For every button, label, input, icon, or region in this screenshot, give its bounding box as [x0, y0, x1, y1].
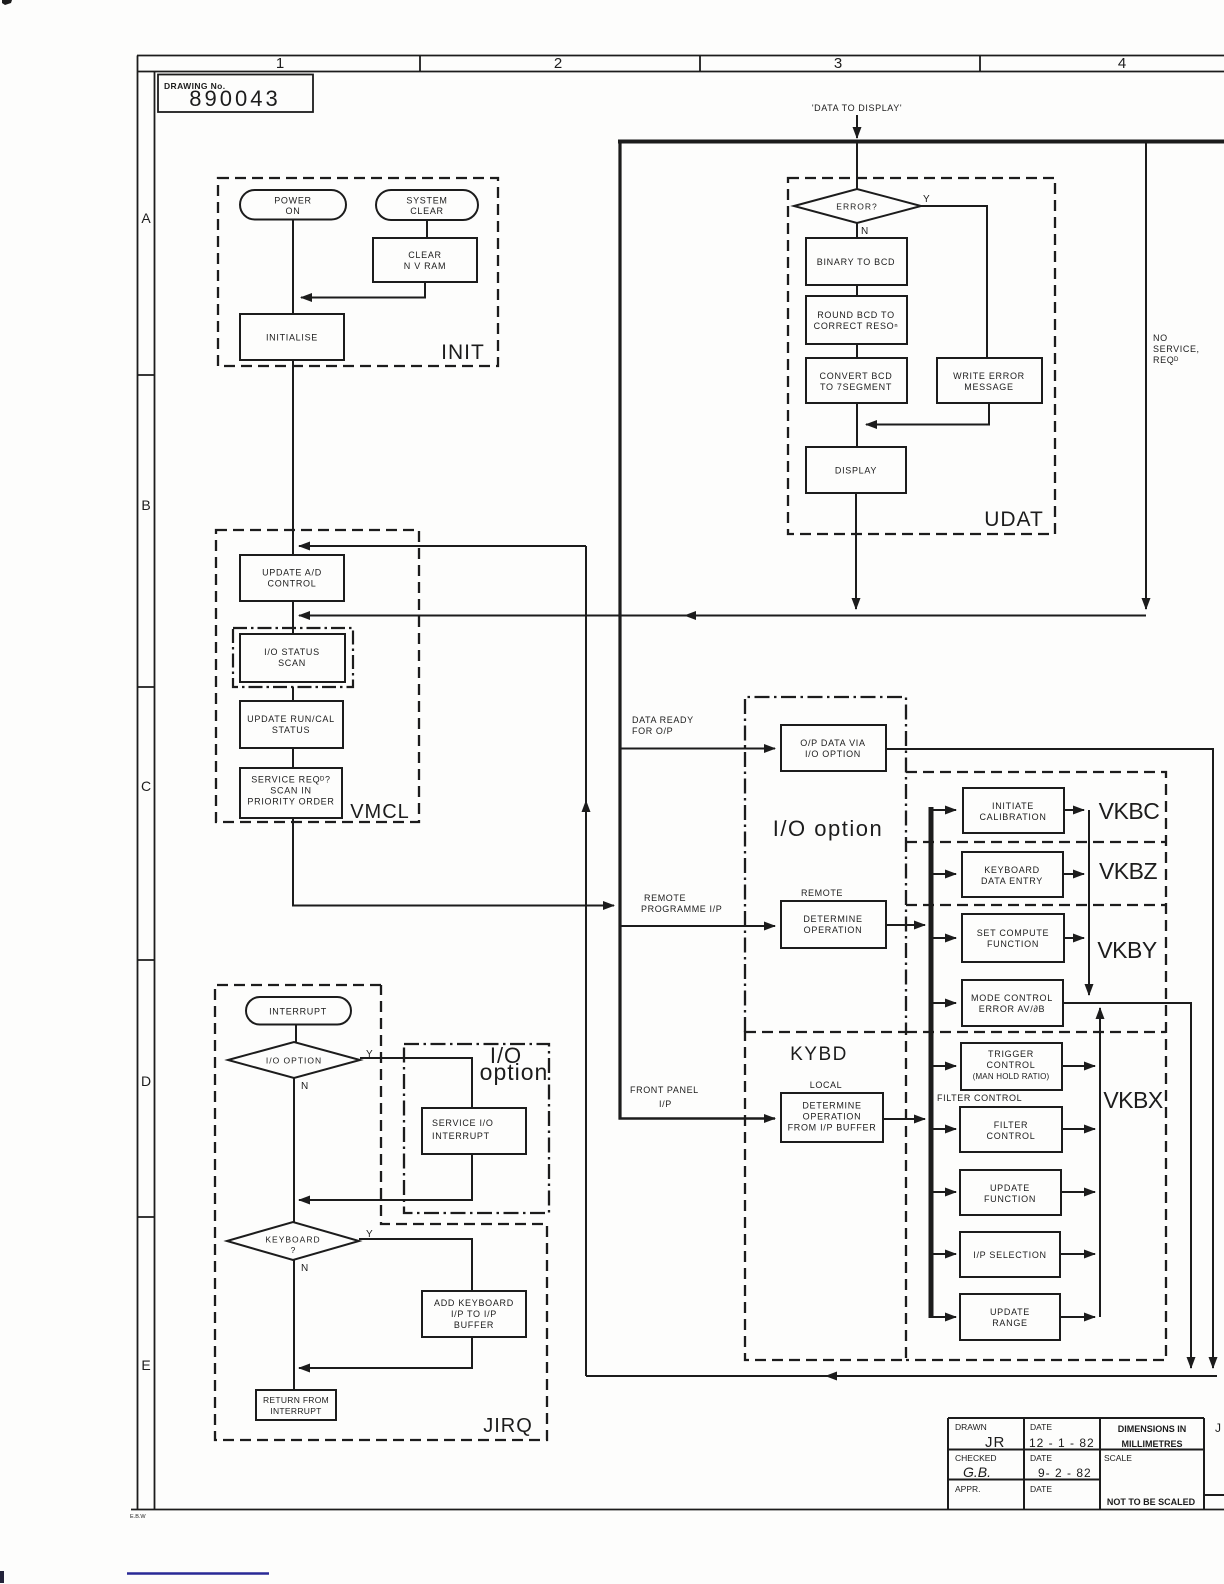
svg-text:E: E — [141, 1357, 150, 1373]
process INITIALISE — [240, 314, 344, 360]
svg-text:DATE: DATE — [1030, 1453, 1052, 1463]
wire keyboard N down — [293, 1260, 295, 1390]
VKB outer dashed boundary — [906, 772, 1166, 1360]
wire right branch down — [1145, 143, 1147, 609]
svg-text:INTERRUPT: INTERRUPT — [270, 1406, 321, 1416]
svg-text:N V RAM: N V RAM — [404, 261, 446, 271]
svg-text:TRIGGER: TRIGGER — [988, 1049, 1034, 1059]
svg-text:VMCL: VMCL — [350, 801, 410, 823]
svg-text:VKBY: VKBY — [1097, 937, 1157, 963]
svg-text:SET COMPUTE: SET COMPUTE — [977, 928, 1050, 938]
svg-text:SCALE: SCALE — [1104, 1453, 1132, 1463]
svg-text:A: A — [141, 210, 151, 226]
svg-text:FROM I/P BUFFER: FROM I/P BUFFER — [788, 1123, 877, 1133]
wire bus branch r2 — [933, 873, 956, 875]
wire O/P data out, right and down — [886, 749, 1213, 1368]
wire VMCL out to bus — [293, 818, 614, 906]
svg-text:CONTROL: CONTROL — [987, 1060, 1036, 1070]
svg-text:OPERATION: OPERATION — [803, 1112, 862, 1122]
svg-text:KEYBOARD: KEYBOARD — [984, 865, 1040, 875]
wire mode control out right and down — [1063, 1003, 1191, 1368]
svg-text:CONTROL: CONTROL — [987, 1131, 1036, 1141]
wire bus branch r1 — [933, 809, 956, 811]
process UPDATE RANGE — [960, 1294, 1060, 1340]
wire system clear to clear nv ram — [426, 220, 428, 238]
wire filter out — [1062, 1128, 1095, 1130]
svg-text:'DATA TO DISPLAY': 'DATA TO DISPLAY' — [812, 103, 902, 113]
process ADD KEYBOARD I/P TO I/P BUFFER — [422, 1291, 526, 1337]
process MODE CONTROL ERROR — [962, 980, 1063, 1026]
decision I/O OPTION — [228, 1042, 373, 1092]
svg-text:E.B.W: E.B.W — [130, 1514, 146, 1520]
svg-text:J: J — [1215, 1421, 1221, 1435]
corner mark bottom-left — [0, 1571, 4, 1583]
wire i/o option Y to service box — [360, 1058, 472, 1108]
svg-text:ADD KEYBOARD: ADD KEYBOARD — [434, 1298, 514, 1308]
terminal SYSTEM CLEAR — [376, 190, 478, 220]
svg-text:WRITE ERROR: WRITE ERROR — [953, 371, 1025, 381]
svg-text:?: ? — [291, 1245, 296, 1255]
decision ERROR? — [794, 189, 930, 237]
terminal INTERRUPT — [246, 997, 351, 1025]
svg-text:G.B.: G.B. — [963, 1464, 991, 1480]
process SET COMPUTE FUNCTION — [962, 914, 1064, 962]
wire VKBX collector up — [1099, 1008, 1101, 1317]
wire local determine to bus — [883, 1118, 925, 1120]
wire update range out — [1060, 1316, 1095, 1318]
wire long return to VMCL — [299, 615, 1146, 617]
VMCL dashed boundary — [216, 530, 419, 822]
wire convert down to display — [856, 403, 858, 447]
svg-text:VKBX: VKBX — [1103, 1087, 1163, 1113]
wire bus branch r8 — [933, 1253, 956, 1255]
wire bus branch r5 — [933, 1065, 956, 1067]
process RETURN FROM INTERRUPT — [256, 1390, 336, 1420]
svg-text:CONTROL: CONTROL — [268, 579, 317, 589]
junction arrow on bottom collector — [825, 1372, 837, 1381]
wire update function out — [1061, 1191, 1095, 1193]
wire add keyboard return — [299, 1337, 472, 1368]
divider VKBZ/VKBY — [906, 904, 1166, 906]
svg-text:VKBC: VKBC — [1099, 798, 1160, 824]
svg-text:4: 4 — [1118, 55, 1126, 72]
svg-text:(MAN HOLD RATIO): (MAN HOLD RATIO) — [973, 1072, 1050, 1081]
svg-text:I/O STATUS: I/O STATUS — [264, 647, 320, 657]
svg-text:FUNCTION: FUNCTION — [984, 1194, 1036, 1204]
svg-text:N: N — [301, 1081, 308, 1092]
svg-text:N: N — [861, 226, 868, 237]
svg-text:ERROR AV/∂B: ERROR AV/∂B — [979, 1004, 1046, 1014]
process WRITE ERROR MESSAGE — [937, 358, 1042, 403]
wire service i/o return — [299, 1154, 472, 1200]
svg-text:SERVICE I/O: SERVICE I/O — [432, 1118, 494, 1128]
svg-text:INTERRUPT: INTERRUPT — [269, 1007, 327, 1017]
wire bus branch r7 — [933, 1191, 956, 1193]
svg-text:C: C — [141, 778, 151, 794]
svg-text:PROGRAMME I/P: PROGRAMME I/P — [641, 904, 722, 914]
svg-text:NOT TO BE SCALED: NOT TO BE SCALED — [1107, 1497, 1196, 1507]
corner mark top-left — [2, 0, 12, 5]
svg-text:Y: Y — [923, 194, 930, 205]
svg-text:DATA ENTRY: DATA ENTRY — [981, 876, 1043, 886]
process UPDATE FUNCTION — [960, 1170, 1061, 1215]
wire i/p selection out — [1060, 1253, 1095, 1255]
svg-text:SYSTEM: SYSTEM — [406, 196, 447, 206]
process DETERMINE OPERATION FROM I/P BUFFER — [781, 1093, 883, 1142]
wire keyboard Y to add keyboard box — [359, 1239, 472, 1291]
svg-text:CLEAR: CLEAR — [410, 206, 444, 216]
node NO SERVICE REQD — [1153, 333, 1200, 365]
wire — [856, 285, 858, 296]
svg-text:option: option — [480, 1059, 549, 1085]
svg-text:9- 2 - 82: 9- 2 - 82 — [1038, 1466, 1092, 1480]
wire front panel i/p to determine operation — [619, 1117, 776, 1120]
I/O option chain-dashed boundary (JIRQ) — [404, 1044, 549, 1213]
process CONVERT BCD TO 7SEGMENT — [806, 358, 907, 403]
wire bottom collector — [586, 1375, 1217, 1377]
svg-text:DETERMINE: DETERMINE — [802, 1101, 861, 1111]
svg-text:INIT: INIT — [441, 341, 485, 364]
process DISPLAY — [806, 447, 906, 493]
svg-text:2: 2 — [554, 55, 562, 72]
svg-text:VKBZ: VKBZ — [1099, 858, 1158, 884]
wire error Y to write error message — [921, 206, 987, 358]
JIRQ dashed boundary (L shape) — [215, 985, 547, 1440]
svg-text:I/P TO I/P: I/P TO I/P — [451, 1309, 497, 1319]
process I/P SELECTION — [960, 1232, 1060, 1277]
svg-text:PRIORITY ORDER: PRIORITY ORDER — [247, 797, 334, 807]
svg-text:UDAT: UDAT — [984, 508, 1044, 531]
svg-text:LOCAL: LOCAL — [810, 1080, 843, 1090]
wire clear nv ram merge into main — [301, 282, 425, 298]
heavy bus horizontal — [618, 140, 1224, 144]
keyboard bus thick vertical — [929, 807, 934, 1318]
svg-text:REMOTE: REMOTE — [801, 888, 843, 898]
terminal POWER ON — [240, 190, 346, 220]
svg-text:KYBD: KYBD — [790, 1044, 848, 1065]
svg-text:N: N — [301, 1263, 308, 1274]
wire loop vertical — [585, 546, 587, 1376]
svg-text:UPDATE: UPDATE — [990, 1307, 1030, 1317]
svg-text:INITIALISE: INITIALISE — [266, 333, 318, 343]
svg-text:REQᴰ: REQᴰ — [1153, 355, 1179, 365]
svg-text:DRAWN: DRAWN — [955, 1422, 987, 1432]
junction arrow up on loop — [582, 800, 591, 812]
svg-text:FOR O/P: FOR O/P — [632, 726, 673, 736]
svg-text:FUNCTION: FUNCTION — [987, 939, 1039, 949]
svg-text:3: 3 — [834, 55, 842, 72]
process ROUND BCD — [806, 296, 907, 344]
svg-text:MILLIMETRES: MILLIMETRES — [1122, 1439, 1183, 1449]
wire — [292, 601, 294, 634]
svg-text:DATA READY: DATA READY — [632, 715, 694, 725]
wire loop return into VMCL top — [299, 545, 586, 547]
svg-text:POWER: POWER — [274, 196, 312, 206]
KYBD dashed boundary — [745, 1032, 906, 1360]
svg-text:B: B — [141, 497, 150, 513]
svg-text:DETERMINE: DETERMINE — [803, 914, 862, 924]
process O/P DATA VIA I/O OPTION — [781, 725, 886, 771]
svg-text:1: 1 — [276, 55, 284, 72]
svg-text:ON: ON — [286, 206, 301, 216]
process CLEAR NV RAM — [373, 238, 477, 282]
svg-text:I/O option: I/O option — [773, 816, 883, 841]
svg-text:UPDATE: UPDATE — [990, 1183, 1030, 1193]
svg-text:JR: JR — [985, 1434, 1005, 1451]
svg-text:D: D — [141, 1073, 151, 1089]
process DETERMINE OPERATION — [781, 901, 886, 948]
process KEYBOARD DATA ENTRY — [962, 852, 1063, 897]
wire set compute out — [1064, 937, 1084, 939]
INIT dashed boundary — [218, 178, 498, 366]
process UPDATE RUN/CAL STATUS — [240, 701, 343, 748]
junction arrow on return line — [684, 611, 696, 620]
process INITIATE CALIBRATION — [963, 788, 1064, 833]
divider VKBY/VKBX — [906, 1031, 1166, 1033]
svg-text:JIRQ: JIRQ — [483, 1415, 533, 1437]
wire data to display down — [856, 115, 858, 138]
svg-text:SCAN IN: SCAN IN — [270, 786, 311, 796]
zone numbers — [276, 55, 1126, 72]
wire trigger out — [1062, 1065, 1095, 1067]
process SERVICE REQD SCAN — [240, 768, 342, 818]
process TRIGGER CONTROL — [961, 1043, 1062, 1090]
svg-text:CHECKED: CHECKED — [955, 1453, 997, 1463]
svg-text:CALIBRATION: CALIBRATION — [979, 812, 1046, 822]
divider VKBC/VKBZ — [906, 841, 1166, 843]
svg-text:ROUND BCD TO: ROUND BCD TO — [817, 310, 895, 320]
heavy bus vertical — [618, 142, 621, 1120]
wire — [292, 748, 294, 768]
svg-text:RANGE: RANGE — [992, 1318, 1028, 1328]
wire bus branch r9 — [931, 1316, 956, 1318]
wire — [856, 344, 858, 358]
blue pen line bottom — [127, 1572, 269, 1574]
svg-text:ERROR?: ERROR? — [836, 202, 877, 212]
wire keyboard data entry out — [1063, 873, 1084, 875]
svg-text:KEYBOARD: KEYBOARD — [265, 1235, 320, 1245]
svg-text:DIMENSIONS IN: DIMENSIONS IN — [1118, 1424, 1187, 1434]
svg-text:12 - 1 - 82: 12 - 1 - 82 — [1029, 1436, 1095, 1450]
drawing number box — [158, 75, 313, 113]
wire power on down — [292, 220, 294, 315]
I/O option chain-dashed boundary — [745, 697, 906, 1032]
svg-text:CLEAR: CLEAR — [408, 250, 442, 260]
svg-text:I/O OPTION: I/O OPTION — [266, 1056, 322, 1066]
svg-text:BINARY TO BCD: BINARY TO BCD — [817, 257, 895, 267]
process SERVICE I/O INTERRUPT — [422, 1108, 526, 1154]
wire — [292, 687, 294, 701]
process FILTER CONTROL — [960, 1107, 1062, 1152]
wire determine operation to bus — [886, 924, 925, 926]
svg-text:MESSAGE: MESSAGE — [964, 382, 1013, 392]
svg-text:DISPLAY: DISPLAY — [835, 466, 877, 476]
wire VKB collector upper — [1088, 810, 1090, 995]
wire bus branch r6 — [933, 1128, 956, 1130]
wire write error merge — [866, 403, 989, 425]
svg-text:CORRECT RESOⁿ: CORRECT RESOⁿ — [814, 321, 899, 331]
svg-text:I/O OPTION: I/O OPTION — [805, 749, 861, 759]
svg-text:O/P DATA VIA: O/P DATA VIA — [800, 738, 865, 748]
wire initialise down to VMCL — [292, 360, 294, 555]
svg-text:UPDATE RUN/CAL: UPDATE RUN/CAL — [247, 714, 335, 724]
svg-text:CONVERT BCD: CONVERT BCD — [820, 371, 893, 381]
svg-text:RETURN FROM: RETURN FROM — [263, 1395, 329, 1405]
wire remote in — [622, 925, 776, 927]
decision KEYBOARD? — [227, 1222, 373, 1274]
svg-text:STATUS: STATUS — [272, 725, 310, 735]
wire interrupt down — [295, 1025, 297, 1044]
svg-text:I/P: I/P — [659, 1099, 672, 1109]
svg-text:FILTER CONTROL: FILTER CONTROL — [937, 1093, 1022, 1103]
wire data ready to O/P data box — [622, 748, 776, 750]
svg-text:SERVICE,: SERVICE, — [1153, 344, 1200, 354]
node REMOTE PROGRAMME I/P — [641, 893, 722, 914]
svg-text:TO 7SEGMENT: TO 7SEGMENT — [820, 382, 892, 392]
process UPDATE A/D CONTROL — [240, 555, 344, 601]
svg-text:I/P SELECTION: I/P SELECTION — [973, 1250, 1046, 1260]
node DATA READY FOR O/P — [632, 715, 694, 736]
wire display down to return line — [855, 493, 857, 609]
svg-text:FILTER: FILTER — [994, 1120, 1029, 1130]
svg-text:UPDATE A/D: UPDATE A/D — [262, 568, 322, 578]
svg-text:FRONT PANEL: FRONT PANEL — [630, 1085, 699, 1095]
wire heavy line into error diamond — [856, 143, 858, 190]
wire i/o option N down — [293, 1078, 295, 1223]
wire initiate calibration out — [1064, 809, 1084, 811]
svg-text:APPR.: APPR. — [955, 1484, 981, 1494]
svg-text:BUFFER: BUFFER — [454, 1320, 494, 1330]
process BINARY TO BCD — [806, 238, 907, 285]
svg-text:NO: NO — [1153, 333, 1168, 343]
wire error N down — [856, 223, 858, 238]
svg-text:SERVICE REQᴰ?: SERVICE REQᴰ? — [251, 775, 331, 785]
UDAT dashed boundary — [788, 178, 1055, 534]
wire bus branch r4 — [933, 1002, 956, 1004]
svg-text:890043: 890043 — [189, 86, 280, 111]
node FRONT PANEL I/P — [630, 1085, 699, 1109]
svg-text:MODE CONTROL: MODE CONTROL — [971, 993, 1053, 1003]
svg-text:OPERATION: OPERATION — [804, 925, 863, 935]
svg-text:DATE: DATE — [1030, 1484, 1052, 1494]
process I/O STATUS SCAN with highlight frame — [233, 628, 353, 687]
svg-text:REMOTE: REMOTE — [644, 893, 686, 903]
wire bus branch r3 — [933, 937, 956, 939]
zone letters — [141, 210, 151, 1373]
svg-text:SCAN: SCAN — [278, 658, 306, 668]
svg-text:DATE: DATE — [1030, 1422, 1052, 1432]
svg-text:INITIATE: INITIATE — [992, 801, 1034, 811]
svg-text:INTERRUPT: INTERRUPT — [432, 1131, 490, 1141]
